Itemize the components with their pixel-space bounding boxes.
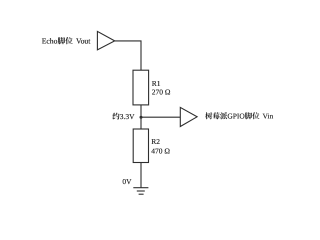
node label approx 3.3V (112, 112, 135, 121)
node label: Raspberry Pi GPIO pin Vin (205, 112, 273, 121)
svg-text:Vout: Vout (74, 37, 91, 46)
wire R1 to R2 (140, 105, 142, 129)
svg-text:3.3V: 3.3V (120, 112, 135, 121)
svg-text:0V: 0V (122, 177, 132, 186)
wire R2 to ground (140, 163, 142, 188)
svg-text:Vin: Vin (261, 112, 274, 121)
svg-text:GPIO: GPIO (227, 112, 245, 121)
svg-text:Echo: Echo (42, 37, 58, 46)
ground (133, 188, 148, 195)
node label: Echo pin Vout (42, 37, 92, 46)
input port triangle Vout (97, 31, 114, 50)
svg-text:470 Ω: 470 Ω (151, 147, 170, 156)
wire Vout to R1 (115, 41, 141, 70)
resistor R2 (133, 129, 148, 163)
wire node to GPIO (141, 116, 180, 118)
output port triangle Vin (180, 107, 197, 126)
svg-text:270 Ω: 270 Ω (152, 88, 171, 97)
svg-text:R2: R2 (151, 137, 160, 146)
junction node (140, 116, 143, 119)
resistor R1 (133, 70, 149, 105)
